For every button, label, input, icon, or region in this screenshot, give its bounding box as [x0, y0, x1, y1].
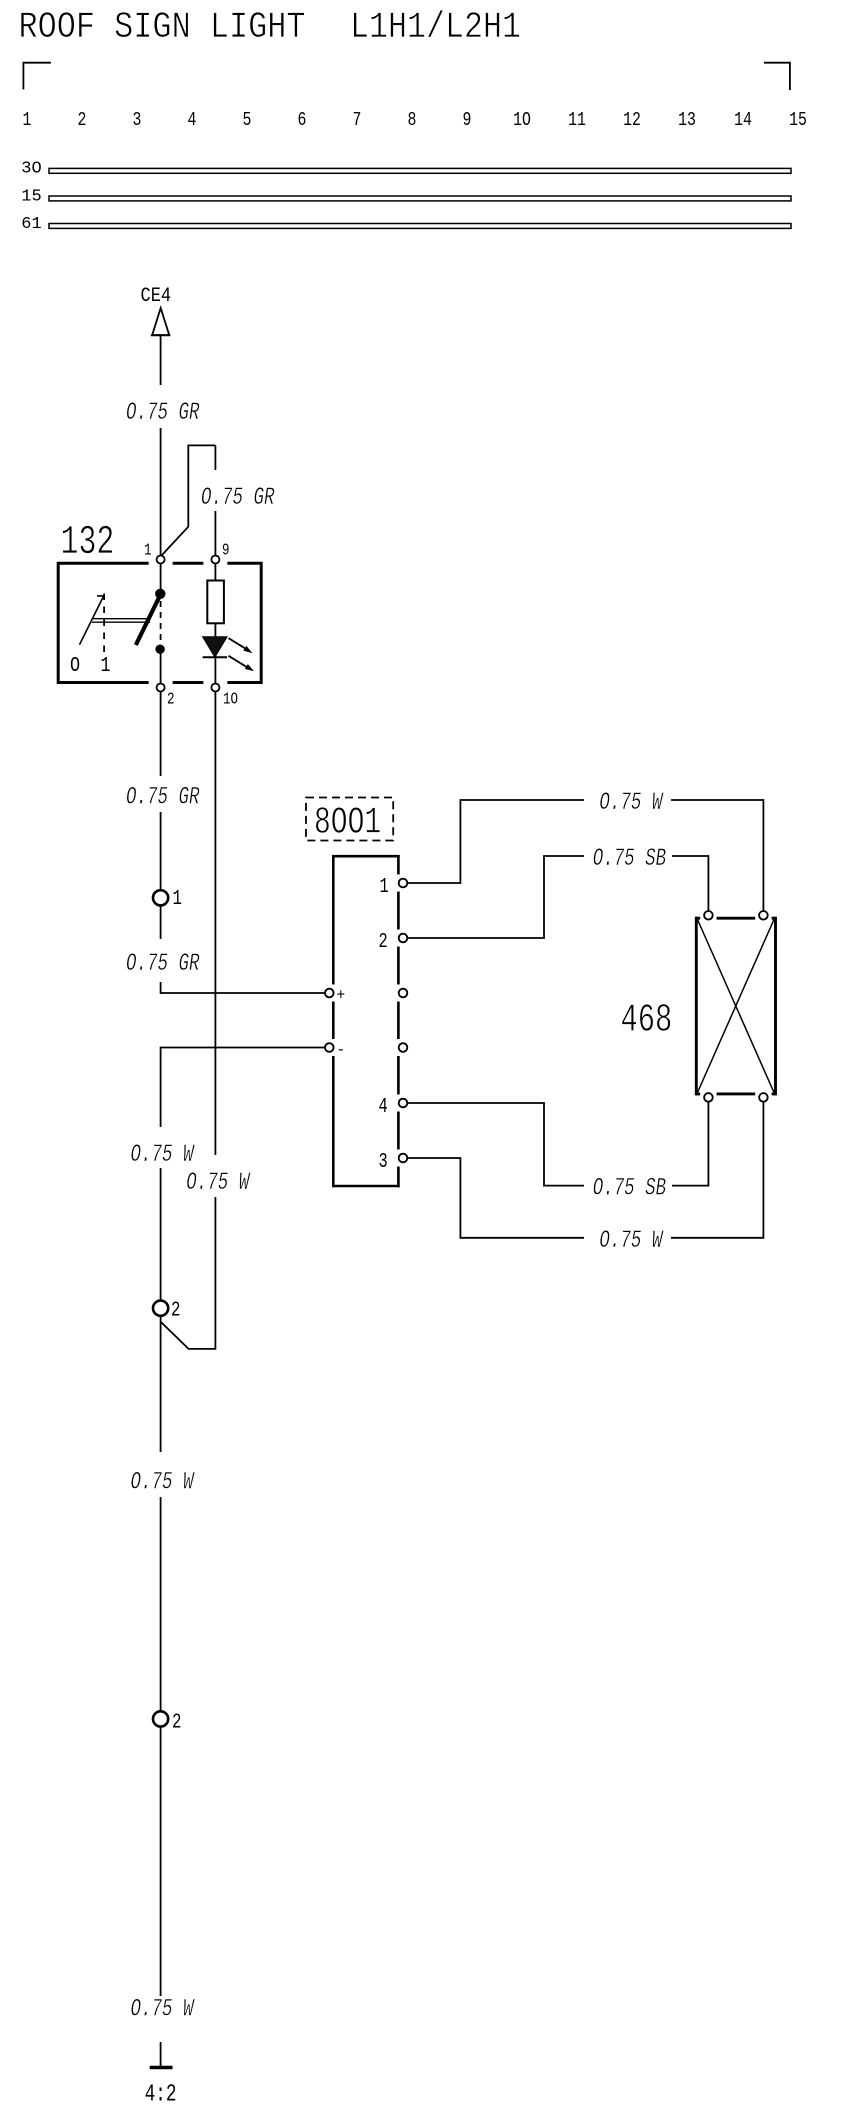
- control unit 8001 body: [332, 856, 400, 1186]
- 8001 pin 3 terminal: [399, 1154, 408, 1163]
- svg-text:O.75 W: O.75 W: [131, 1469, 196, 1497]
- LED emission arrow 1: [229, 638, 253, 653]
- svg-text:1: 1: [101, 653, 111, 677]
- 8001 pin 4 terminal: [399, 1099, 408, 1108]
- 8001 mid terminal a: [399, 989, 408, 998]
- svg-text:13: 13: [678, 111, 696, 132]
- wire label 0.75 W (below minus node): [124, 1127, 200, 1169]
- lamp 468 upper-right terminal: [759, 911, 768, 920]
- LED cathode bar: [203, 656, 228, 658]
- svg-text:3: 3: [133, 111, 142, 132]
- svg-text:15: 15: [21, 188, 41, 207]
- switch detent dashed line: [103, 594, 105, 656]
- bus 15: [49, 196, 791, 201]
- svg-text:8: 8: [408, 111, 417, 132]
- svg-text:O.75 GR: O.75 GR: [126, 399, 200, 427]
- bus 61: [49, 224, 791, 229]
- 8001 mid terminal b: [399, 1043, 408, 1052]
- svg-text:O.75 W: O.75 W: [131, 1996, 196, 2024]
- resistor (lamp ballast) in 132: [207, 581, 224, 624]
- svg-text:9: 9: [222, 542, 229, 560]
- svg-text:11: 11: [568, 111, 586, 132]
- svg-text:468: 468: [621, 998, 673, 1043]
- connector node 1: [153, 890, 168, 905]
- LED emission arrow 2: [229, 656, 255, 672]
- svg-text:2: 2: [78, 111, 87, 132]
- connector node 2 (lower): [153, 1711, 168, 1726]
- wire label 0.75 GR (pin 9 branch): [196, 470, 284, 512]
- svg-text:12: 12: [623, 111, 641, 132]
- switch 132 pin 2 terminal: [157, 684, 165, 692]
- 8001 pin 2 terminal: [399, 934, 408, 943]
- wire pin 9 / pin 10 branch down to connector 2: [161, 445, 216, 1349]
- wire hook from pin 1 up to pin 9 branch: [162, 445, 215, 555]
- wire label 0.75 GR (below pin 2): [120, 776, 206, 812]
- svg-text:+: +: [337, 986, 346, 1005]
- wire 8001 pin 2 to 468 upper left: [403, 856, 708, 938]
- svg-text:1O: 1O: [223, 691, 238, 709]
- switch contact dot lower: [155, 645, 164, 654]
- svg-text:-: -: [337, 1040, 346, 1059]
- connector CE4 arrow: [152, 308, 169, 335]
- svg-text:2: 2: [172, 1711, 181, 1735]
- switch 132 pin 9 terminal: [211, 556, 219, 564]
- bus 30: [49, 168, 791, 173]
- svg-text:3O: 3O: [21, 160, 41, 179]
- wire minus-node branch down to ground: [161, 1048, 330, 2067]
- wire label 0.75 W (8001 pin 3 run): [584, 1227, 671, 1255]
- svg-text:O.75 W: O.75 W: [599, 1227, 664, 1255]
- frame corner top-left: [23, 63, 51, 90]
- switch lever: [136, 595, 161, 646]
- svg-text:O.75 GR: O.75 GR: [126, 950, 200, 978]
- control unit 8001 dashed label box: [306, 798, 393, 841]
- svg-text:O: O: [70, 653, 80, 677]
- svg-text:O.75 GR: O.75 GR: [201, 484, 275, 512]
- 8001 pin 1 terminal: [399, 879, 408, 888]
- switch actuator link double line: [92, 619, 150, 623]
- svg-text:1: 1: [380, 875, 389, 899]
- svg-text:4: 4: [188, 111, 197, 132]
- wire 8001 pin 1 to 468 upper right: [403, 800, 763, 911]
- 8001 plus terminal: [325, 989, 334, 998]
- svg-text:5: 5: [243, 111, 252, 132]
- switch 132 pin 10 terminal: [211, 684, 219, 692]
- svg-text:O.75 SB: O.75 SB: [593, 845, 667, 873]
- frame corner top-right: [764, 63, 790, 90]
- column numbers 1-15: [23, 111, 807, 132]
- svg-text:O.75 SB: O.75 SB: [593, 1175, 667, 1203]
- wire label 0.75 GR (above plus node): [120, 939, 206, 982]
- svg-text:1O: 1O: [513, 111, 531, 132]
- svg-text:8OO1: 8OO1: [314, 802, 381, 845]
- svg-text:3: 3: [379, 1150, 388, 1174]
- svg-text:O.75 W: O.75 W: [131, 1141, 196, 1169]
- wire CE4 feed down to switch pin 1 and on to node +: [160, 335, 162, 593]
- svg-text:1: 1: [144, 542, 152, 560]
- switch 132 box: [58, 562, 261, 684]
- wire label 0.75 SB (8001 pin 2 run): [584, 845, 672, 873]
- svg-text:O.75 W: O.75 W: [599, 789, 664, 817]
- svg-text:4: 4: [379, 1095, 388, 1119]
- wire label 0.75 W (8001 pin 1 run): [584, 789, 671, 817]
- svg-text:61: 61: [21, 215, 41, 234]
- lamp 468 lower-right terminal: [759, 1093, 768, 1102]
- svg-text:1: 1: [23, 111, 32, 132]
- svg-text:15: 15: [789, 111, 807, 132]
- svg-text:O.75 GR: O.75 GR: [126, 784, 200, 812]
- wire label 0.75 W (below connector 2): [124, 1452, 200, 1497]
- svg-text:2: 2: [167, 691, 174, 709]
- svg-text:132: 132: [61, 519, 115, 566]
- svg-text:O.75 W: O.75 W: [186, 1169, 251, 1197]
- wire label 0.75 W (above ground): [124, 1996, 200, 2042]
- svg-text:CE4: CE4: [141, 285, 172, 308]
- wire label 0.75 GR (CE4 feed): [118, 385, 208, 428]
- switch contact dot upper: [155, 589, 165, 599]
- svg-text:7: 7: [353, 111, 362, 132]
- svg-text:ROOF SIGN LIGHT: ROOF SIGN LIGHT: [19, 7, 306, 49]
- switch travel dashed line: [160, 601, 162, 644]
- title ROOF SIGN LIGHT L1H1/L2H1: [19, 7, 521, 49]
- svg-text:2: 2: [171, 1299, 180, 1323]
- wire label 0.75 W (pin 10 branch): [182, 1155, 256, 1197]
- wire label 0.75 SB (8001 pin 4 run): [584, 1175, 672, 1203]
- switch 132 pin 1 terminal: [157, 556, 165, 564]
- svg-text:L1H1/L2H1: L1H1/L2H1: [350, 7, 521, 49]
- lamp 468 cross diagonals: [698, 920, 775, 1093]
- svg-text:6: 6: [298, 111, 307, 132]
- wire 8001 pin 3 to 468 lower right: [403, 1101, 763, 1238]
- svg-text:14: 14: [734, 111, 752, 132]
- lamp 468 upper-left terminal: [704, 911, 713, 920]
- wire 8001 pin 4 to 468 lower left: [403, 1101, 708, 1186]
- ground bar: [150, 2066, 173, 2070]
- switch position stroke (0 indicator): [80, 596, 105, 645]
- lamp 468 lower-left terminal: [704, 1093, 713, 1102]
- lamp 468 body: [696, 918, 775, 1094]
- svg-text:9: 9: [463, 111, 472, 132]
- svg-text:1: 1: [173, 887, 182, 911]
- 8001 minus terminal: [325, 1043, 334, 1052]
- indicator LED triangle in 132: [203, 637, 228, 658]
- svg-text:4:2: 4:2: [145, 2081, 177, 2108]
- connector node 2 (upper): [153, 1301, 168, 1316]
- svg-text:2: 2: [379, 930, 388, 954]
